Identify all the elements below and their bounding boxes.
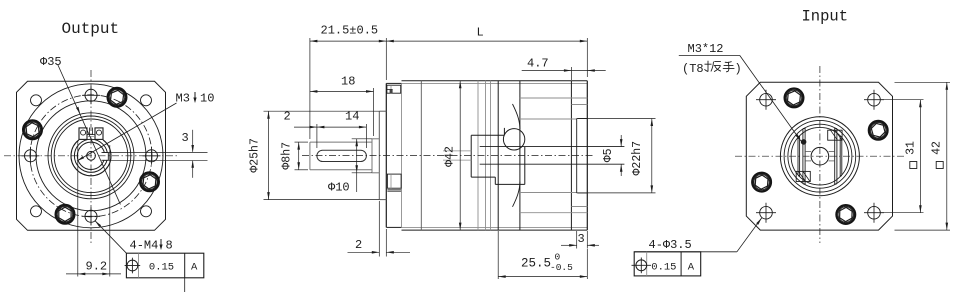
svg-text:4.7: 4.7 [527,57,549,71]
ext line right face up [586,38,588,77]
leader line 4-M4 [95,221,126,254]
svg-text:9.2: 9.2 [86,260,108,274]
circlip inner circle [77,142,104,169]
hex socket bolt at 66 deg [108,88,127,107]
dim square-31 [880,99,924,101]
circlip left ear [79,128,87,139]
input end face [586,81,588,230]
svg-text:A: A [191,262,198,274]
keyway extension line bottom [103,159,208,161]
adapter internal lines [520,97,587,99]
shaft keyway notch [102,152,109,160]
output shaft circlip retaining ring [71,140,111,176]
pilot boss circle mid [51,116,131,196]
phi10 collar [371,139,373,173]
svg-text:Output: Output [62,20,120,38]
circlip gap detail between ears [89,128,91,135]
hex socket bolt at 336 deg [140,173,159,192]
pilot boss circle inner [54,119,128,193]
output flange face [385,83,387,227]
svg-text:14: 14 [345,110,359,124]
svg-text:(T8: (T8 [682,62,704,76]
output pilot boss phi25h7 [378,111,380,199]
svg-text:3: 3 [578,232,585,246]
hex socket bolt input at 24 deg [869,121,888,140]
ring gear boundary [420,81,422,230]
keyway extension line top [103,152,208,154]
input flange square outline with chamfered corners [746,82,892,230]
shaft centre hole [87,151,96,160]
svg-text:42: 42 [931,141,944,155]
svg-text:3: 3 [182,131,189,145]
ext line 9.2 left [77,141,79,277]
CJK char ban [704,61,720,72]
front plate boundary [401,83,403,227]
svg-text:8: 8 [166,239,173,253]
key slot on shaft [317,150,367,161]
svg-text:): ) [735,62,742,76]
svg-text:Φ10: Φ10 [328,181,350,195]
input pilot circles [780,117,859,196]
motor flange boundary [570,81,572,230]
internal plate line 1 [477,81,479,230]
corner hole top-left [31,95,42,106]
clamp screw tip dot [801,140,806,145]
M4 tapped hole bottom [85,210,97,222]
adapter bell boundary [519,81,521,230]
svg-text:25.5: 25.5 [521,257,551,271]
svg-text:M3*12: M3*12 [688,42,724,56]
output flange square outline with chamfered corners [17,81,166,230]
phi35 circle [36,101,146,211]
output shaft phi8h7 [310,141,372,143]
coupling clamp slots [797,138,799,175]
hex socket bolt at 156 deg [23,121,42,140]
adapter bell curves [513,104,520,129]
corner hole top-right [141,95,152,106]
ext line flange face up [385,38,387,80]
ext line collar [373,88,375,136]
internal plate line 3 [490,81,492,230]
front flange screw hole (top) [387,85,401,93]
dim line 3 lower [192,161,194,178]
svg-text:18: 18 [341,75,355,89]
arrowhead M3 leader [77,156,84,161]
shaft circle phi10 [74,139,107,172]
svg-text:Φ8h7: Φ8h7 [281,142,294,170]
square symbol 31 [910,162,917,169]
corner hole bottom-right [141,206,152,217]
outer flange face circle [19,84,163,228]
position tolerance frame (input) [634,252,701,276]
position tolerance frame (output) [126,253,203,278]
gearbox/adapter boundary [497,81,499,230]
hex socket bolt input at 204 deg [752,173,771,192]
M4 tapped hole left [25,150,37,162]
svg-text:0.15: 0.15 [149,262,174,274]
input horizontal centerline [735,155,905,157]
housing outline [402,80,588,82]
circlip right ear [95,128,103,139]
svg-text:10: 10 [200,92,214,106]
svg-text:4-Φ3.5: 4-Φ3.5 [649,238,692,252]
phi3.5 mounting hole bottom-left [760,206,773,219]
corner hole bottom-left [31,206,42,217]
input shaft clamp coupling [471,134,504,136]
motor shaft phi5 bore lines [480,146,625,148]
svg-text:0.15: 0.15 [651,262,676,274]
phi3.5 mounting hole bottom-right [868,206,881,219]
svg-text:M3: M3 [176,92,190,106]
circlip right ear hole [97,130,102,135]
dim square-42 [895,81,951,83]
section centerline [302,154,594,156]
svg-text:Φ42: Φ42 [444,146,457,167]
svg-text:-0.5: -0.5 [550,262,573,273]
svg-text:2: 2 [284,110,291,124]
circlip left ear hole [81,130,86,135]
svg-text:A: A [688,262,695,274]
dim line 3 upper [192,130,194,152]
position symbol [127,260,138,271]
leader line for M3 [77,103,177,161]
sun pinion shaft lines [443,150,471,152]
phi3.5 mounting hole top-left [760,93,773,106]
arrow 3 up [191,160,194,168]
hex socket bolt input at 114 deg [785,89,804,108]
svg-text:L: L [477,26,484,40]
leader line for phi35 [58,65,121,205]
M4 tapped hole top [85,89,97,101]
hex socket bolt input at 294 deg [837,205,856,224]
phi3.5 mounting hole top-right [868,93,881,106]
coupling screw recesses [828,130,842,140]
coupling hub lines [805,151,811,153]
ext line 9.2 right [109,145,111,277]
datum line below frame [184,278,186,292]
vertical centerline [90,70,92,243]
hex socket bolt at 246 deg [56,205,75,224]
svg-text:21.5±0.5: 21.5±0.5 [321,24,379,38]
M4 tapped hole right [146,150,158,162]
CJK char shou [723,62,735,72]
internal plate line 2 [485,81,487,230]
ext line shaft end [309,38,311,139]
square symbol 42 [936,162,943,169]
horizontal centerline [4,155,178,157]
dim line 9.2 [66,273,121,275]
svg-text:2: 2 [355,238,362,252]
svg-text:Input: Input [802,8,849,26]
clamp screw head [503,129,524,150]
input vertical centerline [819,66,821,243]
front flange screw hole (bottom) [387,174,401,188]
svg-text:Φ25h7: Φ25h7 [249,138,262,173]
svg-text:Φ22h7: Φ22h7 [631,141,644,176]
pilot boss circle outer [48,113,134,199]
svg-text:31: 31 [905,141,918,155]
arrow 3 down [191,145,194,153]
motor shaft hole phi5 [811,147,829,165]
input pilot recess phi22h7 [576,119,578,193]
svg-text:Φ5: Φ5 [602,148,615,162]
bolt circle (dash-dot) [30,95,152,217]
arrowhead phi35 [76,107,80,114]
svg-text:4-M4: 4-M4 [130,239,159,253]
